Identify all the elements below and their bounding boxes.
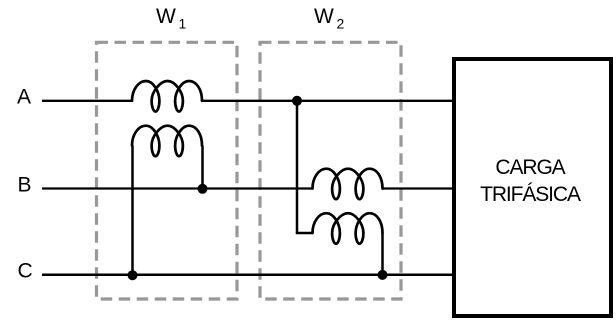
svg-text:2: 2 bbox=[337, 16, 345, 32]
junction dot on line B at x=202.5 bbox=[198, 184, 208, 194]
wire: W1 voltage coil right lead down to line B bbox=[201, 146, 204, 189]
svg-text:B: B bbox=[18, 174, 32, 197]
wire: line B right segment bbox=[383, 187, 455, 189]
voltage coil W1 bbox=[132, 126, 202, 157]
current coil W2 on line B bbox=[313, 169, 383, 200]
wire: W1 voltage coil left lead down to line C bbox=[131, 146, 134, 275]
wire: line A left segment bbox=[42, 100, 132, 102]
wire: vertical from A junction down bbox=[296, 101, 299, 233]
voltage coil W2 bbox=[313, 213, 383, 244]
junction dot on line C at x=382.5 bbox=[378, 270, 388, 280]
svg-text:1: 1 bbox=[179, 16, 187, 32]
svg-text:W: W bbox=[314, 5, 334, 28]
current coil W1 on line A bbox=[132, 81, 202, 112]
label W2 bbox=[314, 5, 345, 32]
svg-text:W: W bbox=[156, 5, 176, 28]
svg-text:C: C bbox=[18, 260, 33, 283]
svg-text:CARGA: CARGA bbox=[495, 156, 565, 179]
wattmeter W1 dashed boundary bbox=[97, 42, 238, 299]
wire: line B left segment bbox=[42, 187, 313, 189]
svg-text:A: A bbox=[17, 85, 31, 108]
three-phase load box bbox=[454, 59, 611, 316]
wire: line C bbox=[42, 274, 454, 277]
junction dot on line C at x=132.5 bbox=[128, 270, 138, 280]
wire: horizontal stub to W2 voltage coil bbox=[296, 232, 313, 235]
wire: line A right segment bbox=[202, 100, 454, 102]
wattmeter W2 dashed boundary bbox=[260, 42, 401, 299]
svg-text:TRIFÁSICA: TRIFÁSICA bbox=[480, 183, 581, 206]
label W1 bbox=[156, 5, 187, 32]
junction dot on line A at x=297 bbox=[292, 96, 302, 106]
wire: W2 voltage coil right lead down to line C bbox=[381, 233, 384, 275]
